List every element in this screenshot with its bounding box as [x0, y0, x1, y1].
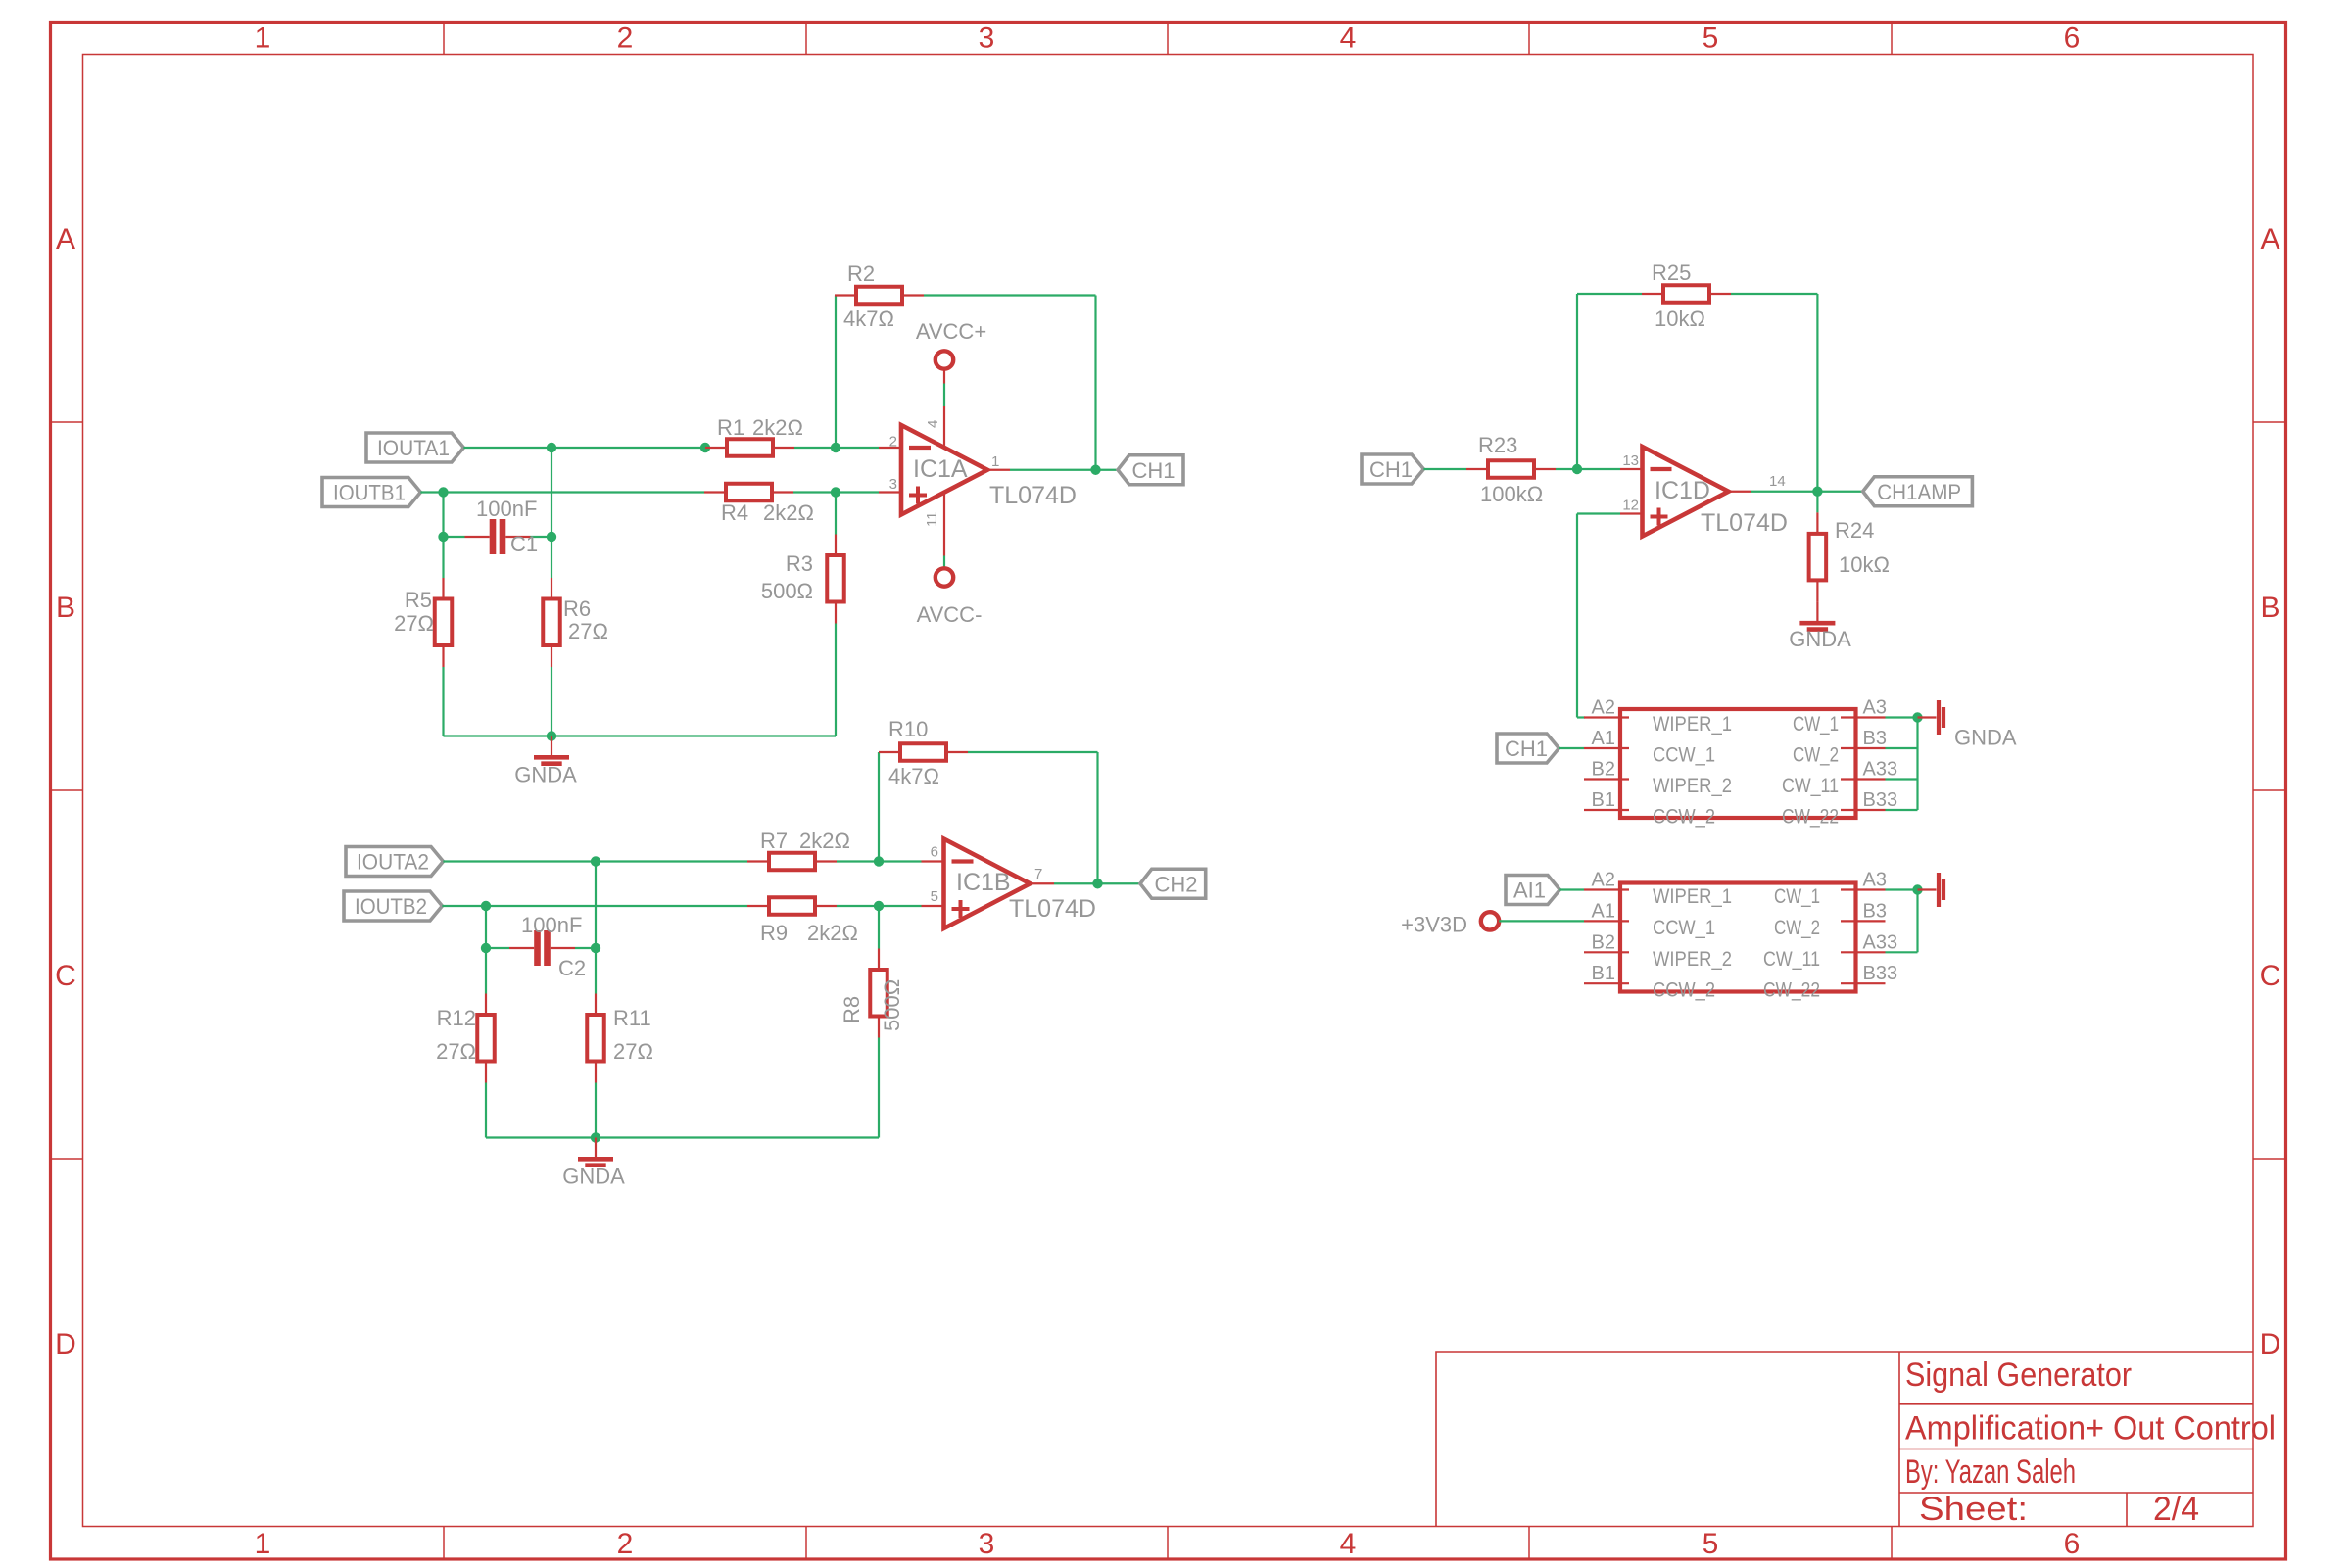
- POT1 left pins: [1584, 716, 1629, 718]
- svg-text:2k2Ω: 2k2Ω: [799, 829, 850, 853]
- node pin13 junction: [1572, 464, 1582, 474]
- node C2 left: [481, 943, 491, 953]
- svg-text:B2: B2: [1592, 759, 1615, 781]
- wire vertical branch to C1 right: [551, 448, 552, 537]
- resistor R2: [835, 294, 856, 296]
- resistor R24: [1816, 512, 1818, 534]
- wire POT1 ground vertical: [1916, 718, 1918, 811]
- resistor R25: [1642, 293, 1663, 295]
- flag IOUTA2: [346, 847, 443, 877]
- wire AI1 to POT2 A2: [1559, 888, 1584, 890]
- supply symbol +3V3D: [1481, 912, 1499, 929]
- wire C2 right: [575, 947, 596, 949]
- frame column ticks: [443, 23, 445, 55]
- pin stub IC1D pin12: [1620, 512, 1643, 514]
- svg-text:4k7Ω: 4k7Ω: [843, 307, 894, 331]
- svg-text:C: C: [2260, 960, 2281, 992]
- node noninverting junction: [831, 487, 840, 497]
- wire CH1 to R23: [1423, 468, 1466, 470]
- node POT1 ground: [1912, 712, 1922, 722]
- wire pin12 down to pot A2: [1576, 514, 1578, 718]
- svg-text:B33: B33: [1863, 963, 1898, 984]
- wire POT1 B3 to vertical: [1886, 747, 1918, 749]
- pin stub IC1D pin13: [1620, 468, 1643, 470]
- flag IOUTB1: [322, 478, 420, 507]
- svg-text:6: 6: [2064, 23, 2081, 55]
- node pin5 junction: [874, 901, 884, 911]
- svg-text:R1: R1: [717, 415, 744, 440]
- flag CH1AMP: [1863, 477, 1973, 506]
- svg-text:CW_11: CW_11: [1763, 948, 1820, 971]
- resistor R1: [705, 447, 727, 449]
- svg-text:A33: A33: [1863, 759, 1898, 781]
- supply symbol AVCC-: [936, 568, 953, 586]
- svg-text:A: A: [56, 223, 75, 256]
- svg-text:CCW_1: CCW_1: [1653, 744, 1715, 767]
- wire R3 to ground bus: [835, 624, 837, 736]
- node IOUTA2 branch: [591, 856, 600, 866]
- wire C2 left down to R12: [485, 948, 487, 994]
- svg-text:4k7Ω: 4k7Ω: [888, 764, 939, 788]
- svg-text:A: A: [2260, 223, 2279, 256]
- wire C1 right down to R6: [551, 537, 552, 578]
- svg-text:B: B: [56, 592, 75, 624]
- svg-text:AVCC+: AVCC+: [916, 319, 986, 344]
- node C1 right: [547, 532, 556, 542]
- node output2/feedback: [1092, 879, 1102, 888]
- svg-text:2: 2: [617, 23, 634, 55]
- svg-text:CH1AMP: CH1AMP: [1877, 480, 1961, 504]
- svg-text:B3: B3: [1863, 900, 1887, 922]
- wire POT2 A33 to vertical: [1886, 951, 1918, 953]
- pin stub IC1A pin4 power: [943, 406, 945, 448]
- node ground bus: [547, 731, 556, 740]
- svg-text:B33: B33: [1863, 789, 1898, 811]
- svg-text:IOUTB1: IOUTB1: [333, 481, 406, 505]
- svg-text:Signal Generator: Signal Generator: [1905, 1356, 2132, 1394]
- svg-text:2/4: 2/4: [2153, 1491, 2199, 1528]
- node pin6 junction: [874, 856, 884, 866]
- wire POT1 A33 to vertical: [1886, 778, 1918, 780]
- resistor R7: [747, 860, 769, 862]
- svg-text:4: 4: [1340, 23, 1357, 55]
- svg-text:GNDA: GNDA: [1789, 627, 1851, 651]
- flag IOUTB2: [344, 891, 442, 921]
- svg-text:CW_22: CW_22: [1763, 979, 1820, 1002]
- wire down to C1 left: [442, 493, 444, 538]
- svg-text:2k2Ω: 2k2Ω: [752, 415, 803, 440]
- wire R7 to IC1B pin6: [837, 860, 922, 862]
- wire IOUTA1 to R1: [463, 447, 705, 449]
- wire R23 to IC1D pin13: [1556, 468, 1620, 470]
- svg-text:R12: R12: [437, 1006, 476, 1030]
- svg-text:C1: C1: [510, 532, 538, 556]
- svg-text:27Ω: 27Ω: [436, 1039, 476, 1064]
- wire junction down to R24: [1816, 492, 1818, 513]
- wire R10 feedback from pin6 junction up: [878, 752, 880, 862]
- svg-text:WIPER_1: WIPER_1: [1653, 713, 1732, 736]
- POT2 right pins: [1841, 888, 1886, 890]
- wire output to CH2 flag: [1054, 882, 1140, 884]
- frame row ticks: [51, 421, 83, 423]
- node IOUTB2 branch: [481, 901, 491, 911]
- op-amp IC1D: [1643, 447, 1729, 537]
- node at R1 left pin: [700, 443, 710, 452]
- svg-text:B: B: [2260, 592, 2279, 624]
- svg-text:CH1: CH1: [1369, 457, 1413, 482]
- node output3 junction: [1812, 487, 1822, 497]
- wire to R25 left: [1577, 293, 1642, 295]
- resistor R9: [747, 905, 769, 907]
- pin stub IC1A output: [987, 469, 1010, 471]
- svg-text:CW_1: CW_1: [1793, 713, 1839, 736]
- svg-text:AVCC-: AVCC-: [917, 602, 983, 627]
- svg-text:R9: R9: [760, 921, 788, 945]
- svg-text:2k2Ω: 2k2Ω: [763, 500, 814, 525]
- wire R6 to ground bus: [551, 667, 552, 736]
- pin stub IC1D output: [1729, 491, 1751, 493]
- title block outline: [1436, 1352, 2253, 1527]
- svg-text:D: D: [55, 1328, 76, 1360]
- svg-text:CW_2: CW_2: [1793, 744, 1839, 767]
- svg-text:Sheet:: Sheet:: [1919, 1491, 2028, 1528]
- resistor R6: [551, 578, 552, 599]
- svg-text:By: Yazan Saleh: By: Yazan Saleh: [1905, 1453, 2076, 1491]
- svg-text:A3: A3: [1863, 870, 1887, 891]
- svg-text:R10: R10: [888, 717, 928, 741]
- svg-text:11: 11: [924, 511, 940, 527]
- svg-text:A1: A1: [1592, 728, 1615, 749]
- svg-text:A33: A33: [1863, 931, 1898, 953]
- wire R25 right to corner: [1731, 293, 1817, 295]
- svg-text:B2: B2: [1592, 931, 1615, 953]
- svg-text:WIPER_2: WIPER_2: [1653, 775, 1732, 797]
- svg-text:12: 12: [1622, 498, 1639, 514]
- ground symbol GNDA under R24: [1816, 601, 1818, 621]
- svg-text:TL074D: TL074D: [989, 482, 1077, 509]
- svg-text:100kΩ: 100kΩ: [1480, 482, 1543, 506]
- svg-text:CW_1: CW_1: [1774, 885, 1820, 908]
- supply symbol AVCC+: [936, 351, 953, 368]
- svg-text:6: 6: [2064, 1528, 2081, 1560]
- wire +3V3D to POT2 A1: [1499, 920, 1584, 922]
- ground symbol POT2: [1918, 888, 1937, 890]
- svg-text:4: 4: [925, 420, 941, 428]
- wire output to CH1AMP: [1751, 491, 1863, 493]
- flag IOUTA1: [366, 433, 463, 462]
- svg-text:500Ω: 500Ω: [761, 579, 813, 603]
- wire feedback up from pin13: [1576, 294, 1578, 469]
- svg-text:CCW_2: CCW_2: [1653, 806, 1715, 829]
- svg-text:2: 2: [889, 434, 897, 451]
- svg-text:100nF: 100nF: [521, 913, 582, 937]
- svg-text:3: 3: [889, 476, 897, 493]
- svg-text:R2: R2: [847, 261, 875, 286]
- svg-text:100nF: 100nF: [476, 497, 537, 521]
- svg-text:R3: R3: [786, 551, 813, 576]
- resistor R11: [595, 994, 597, 1016]
- flag CH1 source: [1362, 454, 1423, 484]
- svg-text:R23: R23: [1478, 433, 1517, 457]
- node C1 left: [438, 532, 448, 542]
- ground symbol GNDA block1: [551, 736, 552, 756]
- wire R9 to IC1B pin5: [837, 905, 922, 907]
- svg-text:27Ω: 27Ω: [568, 619, 608, 643]
- svg-text:CH2: CH2: [1155, 872, 1198, 896]
- svg-text:R25: R25: [1652, 261, 1691, 285]
- wire pin12 left to corner: [1577, 512, 1620, 514]
- wire AVCC+ to pin4: [943, 384, 945, 407]
- ground symbol GNDA POT1: [1918, 716, 1937, 718]
- svg-text:D: D: [2260, 1328, 2281, 1360]
- svg-text:TL074D: TL074D: [1009, 895, 1096, 923]
- svg-text:14: 14: [1769, 473, 1786, 490]
- node inverting input junction: [831, 443, 840, 452]
- node C2 right: [591, 943, 600, 953]
- svg-text:CW_11: CW_11: [1782, 775, 1839, 797]
- wire POT1 B33 to vertical: [1886, 809, 1918, 811]
- wire IOUTB2 to R9: [442, 905, 747, 907]
- wire vertical to C2 right: [595, 862, 597, 949]
- wire POT2 ground vertical: [1916, 890, 1918, 953]
- svg-text:Amplification+ Out Control: Amplification+ Out Control: [1905, 1410, 2276, 1448]
- svg-text:CW_2: CW_2: [1774, 917, 1820, 939]
- node IOUTA1/C-branch junction: [547, 443, 556, 452]
- svg-text:3: 3: [979, 23, 995, 55]
- svg-text:5: 5: [931, 888, 938, 905]
- wire output to CH1 flag: [1010, 469, 1118, 471]
- svg-text:+3V3D: +3V3D: [1401, 912, 1467, 936]
- wire R11 to ground bus 2: [595, 1083, 597, 1138]
- svg-text:B1: B1: [1592, 963, 1615, 984]
- resistor R3: [835, 535, 837, 556]
- potentiometer POT1 box: [1620, 709, 1856, 818]
- svg-text:B3: B3: [1863, 728, 1887, 749]
- svg-text:CH1: CH1: [1505, 736, 1548, 761]
- svg-text:IOUTB2: IOUTB2: [355, 894, 427, 919]
- svg-text:CW_22: CW_22: [1782, 806, 1839, 829]
- svg-text:AI1: AI1: [1513, 879, 1546, 903]
- svg-text:2k2Ω: 2k2Ω: [807, 921, 858, 945]
- svg-text:R24: R24: [1835, 518, 1874, 543]
- svg-text:TL074D: TL074D: [1701, 509, 1788, 537]
- svg-text:IC1B: IC1B: [956, 869, 1011, 896]
- wire POT2 A3 to ground node: [1886, 888, 1918, 890]
- wire IOUTA2 to R7: [443, 860, 747, 862]
- resistor R10: [879, 751, 900, 753]
- svg-text:IOUTA2: IOUTA2: [357, 850, 429, 875]
- svg-text:2: 2: [617, 1528, 634, 1560]
- wire IOUTB1 to R4: [420, 491, 704, 493]
- svg-text:WIPER_1: WIPER_1: [1653, 885, 1732, 908]
- wire R4 to IC1A pin3: [793, 491, 879, 493]
- svg-text:CCW_2: CCW_2: [1653, 979, 1715, 1002]
- resistor R4: [704, 491, 726, 493]
- wire pin3 junction down to R3: [835, 493, 837, 535]
- svg-text:6: 6: [931, 844, 938, 861]
- resistor R23: [1466, 468, 1488, 470]
- wire pin5 junction down to R8: [878, 906, 880, 949]
- wire R2 right to feedback corner: [924, 294, 1096, 296]
- svg-text:IOUTA1: IOUTA1: [377, 436, 450, 460]
- wire CH1 flag to POT1 A1: [1559, 747, 1584, 749]
- flag CH1 output: [1118, 455, 1183, 485]
- svg-text:R8: R8: [840, 996, 864, 1023]
- svg-text:10kΩ: 10kΩ: [1839, 552, 1890, 577]
- pin stub IC1B pin6: [922, 860, 944, 862]
- svg-text:R4: R4: [721, 500, 748, 525]
- svg-text:R6: R6: [563, 596, 591, 621]
- wire R1 to IC1A pin2: [794, 447, 879, 449]
- wire C1 left down to R5: [442, 537, 444, 578]
- svg-text:13: 13: [1622, 452, 1639, 469]
- node ground bus 2: [591, 1132, 600, 1142]
- svg-text:R7: R7: [760, 829, 788, 853]
- wire feedback down to output 2: [1096, 752, 1098, 883]
- wire C2 left: [486, 947, 509, 949]
- svg-text:1: 1: [255, 1528, 271, 1560]
- svg-text:4: 4: [1340, 1528, 1357, 1560]
- svg-text:GNDA: GNDA: [1954, 726, 2017, 750]
- svg-text:C2: C2: [558, 956, 586, 980]
- capacitor C1: [465, 536, 490, 538]
- wire feedback up from pin2 junction: [835, 296, 837, 449]
- wire feedback down to output: [1094, 296, 1096, 470]
- pin stub IC1B pin5: [922, 905, 944, 907]
- flag CH1 into POT1: [1497, 734, 1559, 763]
- svg-text:7: 7: [1034, 866, 1042, 882]
- resistor R12: [485, 994, 487, 1016]
- svg-text:CCW_1: CCW_1: [1653, 917, 1715, 939]
- resistor R8: [878, 949, 880, 971]
- svg-text:R5: R5: [405, 588, 432, 612]
- wire R12 to ground bus 2: [485, 1083, 487, 1138]
- wire R5 to ground bus: [442, 667, 444, 736]
- flag CH2 output: [1140, 869, 1206, 898]
- svg-text:B1: B1: [1592, 789, 1615, 811]
- svg-text:1: 1: [255, 23, 271, 55]
- node output/feedback: [1090, 465, 1100, 475]
- svg-text:A3: A3: [1863, 697, 1887, 719]
- pin stub IC1A pin11 power: [943, 493, 945, 556]
- wire vertical to C2 left: [485, 906, 487, 948]
- wire C1 right: [531, 536, 552, 538]
- wire POT1 A3 to ground node: [1886, 716, 1918, 718]
- svg-text:27Ω: 27Ω: [394, 611, 434, 636]
- op-amp IC1A: [901, 425, 987, 515]
- pin stub IC1A pin 2: [879, 447, 901, 449]
- svg-text:C: C: [55, 960, 76, 992]
- resistor R5: [442, 578, 444, 599]
- wire R10 right to feedback corner: [968, 751, 1098, 753]
- pin stub IC1A pin 3: [879, 491, 901, 493]
- svg-text:WIPER_2: WIPER_2: [1653, 948, 1732, 971]
- POT1 right pins: [1841, 716, 1886, 718]
- svg-text:A2: A2: [1592, 870, 1615, 891]
- svg-text:GNDA: GNDA: [562, 1164, 625, 1188]
- svg-text:27Ω: 27Ω: [613, 1039, 653, 1064]
- wire pin11 to AVCC-: [943, 556, 945, 567]
- svg-text:GNDA: GNDA: [514, 762, 577, 786]
- pin stub AVCC+ supply: [943, 370, 945, 384]
- pin stub IC1B output: [1031, 882, 1055, 884]
- svg-text:500Ω: 500Ω: [880, 979, 904, 1031]
- wire feedback down to output 3: [1816, 294, 1818, 492]
- node IOUTB1 branch: [438, 487, 448, 497]
- capacitor C2: [509, 947, 534, 949]
- svg-text:10kΩ: 10kΩ: [1655, 307, 1705, 331]
- svg-text:R11: R11: [613, 1006, 651, 1030]
- POT2 left pins: [1584, 888, 1629, 890]
- ground bus block1: [444, 735, 837, 736]
- svg-text:5: 5: [1703, 1528, 1719, 1560]
- ground symbol GNDA block2: [595, 1138, 597, 1158]
- svg-text:CH1: CH1: [1132, 458, 1175, 483]
- wire corner into pot A2 pin: [1577, 716, 1585, 718]
- svg-text:3: 3: [979, 1528, 995, 1560]
- wire R8 to ground bus 2: [878, 1038, 880, 1138]
- wire C2 right down to R11: [595, 948, 597, 994]
- svg-text:IC1D: IC1D: [1655, 477, 1710, 504]
- svg-text:IC1A: IC1A: [913, 455, 968, 483]
- potentiometer POT2 box: [1620, 883, 1856, 992]
- node POT2 ground: [1912, 884, 1922, 894]
- flag AI1: [1506, 876, 1559, 905]
- svg-text:A1: A1: [1592, 900, 1615, 922]
- ground bus block2: [486, 1136, 879, 1138]
- op-amp IC1B: [944, 839, 1031, 929]
- svg-text:1: 1: [991, 453, 999, 470]
- svg-text:5: 5: [1703, 23, 1719, 55]
- wire C1 left: [444, 536, 465, 538]
- svg-text:A2: A2: [1592, 697, 1615, 719]
